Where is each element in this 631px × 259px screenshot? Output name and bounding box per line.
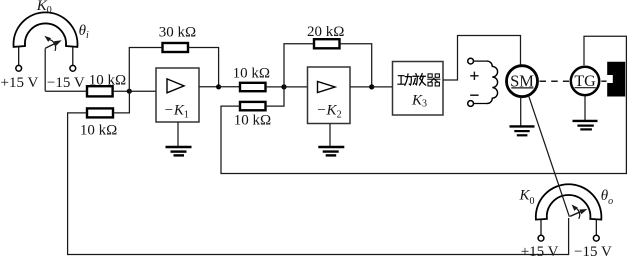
ground below TG — [573, 96, 598, 130]
U3 label fang (amplify) — [413, 74, 426, 86]
resistor R6 20k feedback — [314, 39, 340, 48]
node A junction — [127, 89, 132, 94]
wire node B to R4 — [219, 86, 240, 88]
op-amp U2 — [308, 67, 351, 124]
amplifier U3 box — [393, 62, 444, 116]
mechanical link SM to P2 wiper — [529, 96, 570, 217]
ground below U2 — [318, 124, 344, 156]
svg-text:−15 V: −15 V — [574, 244, 612, 259]
svg-text:+15 V: +15 V — [1, 75, 39, 91]
field coil L1 winding — [487, 61, 498, 103]
node D junction — [369, 84, 374, 89]
potentiometer P1 wiper — [44, 36, 62, 91]
ground below SM — [510, 97, 535, 135]
resistor R1 10k — [87, 86, 113, 96]
svg-text:θi: θi — [79, 23, 89, 41]
svg-text:20 kΩ: 20 kΩ — [307, 24, 344, 40]
svg-text:θo: θo — [601, 188, 613, 207]
motor SM — [507, 66, 538, 97]
U3 label qi (device) — [427, 74, 440, 86]
load bracket — [607, 62, 625, 97]
svg-text:10 kΩ: 10 kΩ — [89, 72, 126, 88]
svg-text:−15 V: −15 V — [47, 75, 85, 91]
wire U2 output to node D — [350, 86, 372, 88]
wire node C up to R6 — [284, 44, 314, 87]
svg-text:K0: K0 — [519, 188, 535, 207]
svg-text:K0: K0 — [36, 0, 52, 16]
potentiometer P2 body — [536, 184, 602, 219]
wire R1 to node A — [113, 90, 130, 92]
wire R3 to node B — [188, 48, 219, 87]
wire node A to U1 input — [129, 90, 156, 92]
resistor R5 10k — [240, 102, 266, 110]
resistor R3 30k feedback — [163, 43, 189, 52]
svg-text:30 kΩ: 30 kΩ — [159, 24, 196, 40]
field coil L1 negative terminal — [468, 101, 487, 107]
potentiometer P2 left terminal — [538, 220, 544, 242]
svg-text:10 kΩ: 10 kΩ — [234, 113, 271, 129]
wire node D to U3 — [372, 86, 393, 88]
wire node A up to R3 — [129, 48, 162, 92]
wire wiper to R1 — [45, 90, 87, 92]
potentiometer P1 body — [14, 12, 78, 47]
minus label — [470, 94, 478, 96]
wire R6 to node D — [340, 44, 372, 87]
potentiometer P2 right terminal — [593, 220, 599, 242]
svg-text:+15 V: +15 V — [521, 244, 559, 259]
ground below U1 — [166, 122, 192, 155]
svg-text:10 kΩ: 10 kΩ — [233, 65, 270, 81]
wire node C to U2 input — [284, 86, 308, 88]
plus label — [470, 72, 478, 80]
potentiometer P1 right terminal — [70, 47, 76, 71]
field coil L1 positive terminal — [468, 58, 487, 64]
dash TG to load — [601, 80, 606, 82]
wire R5 right up to node C — [266, 87, 285, 106]
U3 label gong (power) — [398, 74, 412, 86]
potentiometer P1 left terminal — [16, 47, 22, 71]
node B junction — [216, 84, 221, 89]
wire U1 output to node B — [199, 86, 219, 88]
tachogenerator TG — [571, 67, 599, 95]
node C junction — [281, 84, 286, 89]
wire R2 right up to node A — [113, 91, 129, 113]
wire TG to tach feedback loop — [221, 36, 626, 173]
wire R4 to node C — [266, 86, 285, 88]
op-amp U1 — [156, 68, 199, 122]
resistor R4 10k — [240, 83, 266, 91]
resistor R2 10k — [87, 108, 113, 117]
wire R2 to P2 wiper feedback — [68, 113, 569, 255]
svg-text:10 kΩ: 10 kΩ — [80, 122, 117, 138]
potentiometer P2 wiper — [570, 205, 587, 219]
dashed shaft SM to TG — [540, 80, 570, 82]
wire U3 output to motor armature — [443, 36, 521, 81]
